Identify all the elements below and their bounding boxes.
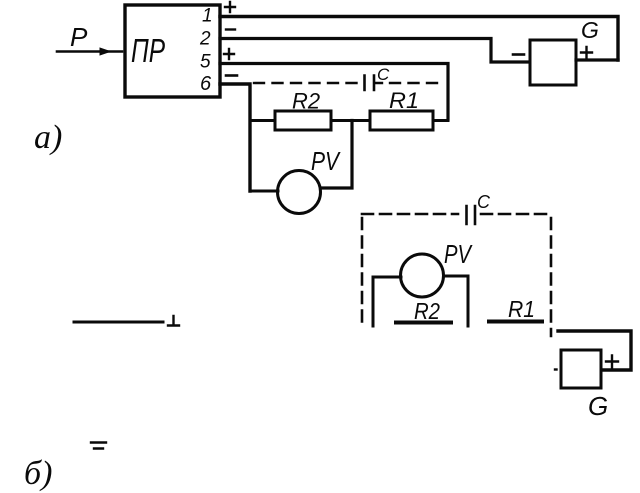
resistor R1 (top) xyxy=(370,111,433,130)
svg-text:C: C xyxy=(477,192,491,212)
svg-text:б): б) xyxy=(24,455,52,492)
polarity − pin6 xyxy=(226,74,237,77)
dashed box left side xyxy=(361,218,364,327)
wire to generator G (lower) xyxy=(558,331,631,370)
plus at G right xyxy=(581,47,592,58)
wire to R2 left xyxy=(250,119,275,122)
wire PV right to junction xyxy=(321,121,353,189)
svg-text:PV: PV xyxy=(311,146,341,176)
resistor R1 lower (cropped top edge) xyxy=(489,320,542,324)
cropped equals mark xyxy=(91,443,106,449)
polarity + pin1 xyxy=(225,2,235,12)
svg-text:P: P xyxy=(70,22,88,52)
capacitor C plates (lower) xyxy=(467,206,476,224)
input arrow P xyxy=(57,50,122,53)
wire G right to vertical xyxy=(576,58,618,61)
svg-text:5: 5 xyxy=(200,52,211,73)
svg-text:ПР: ПР xyxy=(131,32,165,69)
wire pin6 stub down xyxy=(220,84,250,191)
svg-text:R1: R1 xyxy=(508,296,535,322)
svg-text:1: 1 xyxy=(202,6,213,27)
dashed wire with capacitor C (top circuit) xyxy=(254,82,360,84)
stray dot xyxy=(555,368,557,370)
dashed box right side xyxy=(550,218,553,336)
svg-text:a): a) xyxy=(34,119,62,156)
resistor R2 lower (cropped top edge) xyxy=(396,321,451,325)
cropped wire fragment (left) xyxy=(74,321,163,324)
svg-text:G: G xyxy=(588,391,608,421)
polarity + pin5 xyxy=(224,49,234,59)
svg-text:R1: R1 xyxy=(389,88,419,113)
voltmeter PV (lower) xyxy=(401,254,444,297)
wire R1 right xyxy=(433,119,448,122)
svg-text:R2: R2 xyxy=(414,298,440,324)
wire PV lower left xyxy=(373,277,401,326)
svg-text:PV: PV xyxy=(444,239,473,269)
block ПР (transducer) U1 xyxy=(125,5,220,97)
svg-text:2: 2 xyxy=(199,29,211,50)
wire PV lower right xyxy=(444,276,469,326)
svg-text:R2: R2 xyxy=(292,89,320,114)
dashed box top with capacitor C xyxy=(362,213,458,216)
cropped terminal mark xyxy=(168,316,179,326)
resistor R2 (top) xyxy=(275,111,331,130)
minus at G left xyxy=(513,53,524,56)
voltmeter PV (top) xyxy=(278,171,321,214)
plus at G lower xyxy=(606,356,618,368)
wire R2 right to R1 left xyxy=(331,119,370,122)
svg-text:G: G xyxy=(581,17,599,43)
svg-text:6: 6 xyxy=(200,73,212,95)
generator G (lower) xyxy=(561,350,601,388)
wire PV left xyxy=(250,190,278,193)
polarity − pin2 xyxy=(226,28,235,30)
wire pin2 to G left side xyxy=(220,39,529,63)
capacitor C plates xyxy=(365,76,375,91)
generator G (top) xyxy=(530,40,576,85)
wire pin5 to R1 right xyxy=(220,64,448,120)
wire pin1 to G right side xyxy=(220,17,618,61)
svg-text:C: C xyxy=(377,65,390,84)
